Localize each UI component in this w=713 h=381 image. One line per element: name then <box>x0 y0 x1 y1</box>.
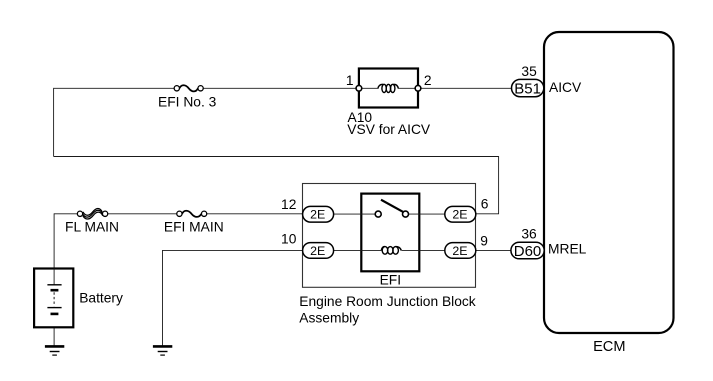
wire: EFI MAIN to connector 2E pin 12 <box>207 213 304 215</box>
relay switch (EFI relay contacts) <box>375 200 408 217</box>
svg-text:ECM: ECM <box>593 339 625 355</box>
svg-text:1: 1 <box>346 73 354 88</box>
svg-text:35: 35 <box>521 64 537 79</box>
relay coil (EFI relay coil) <box>381 247 401 255</box>
ground (battery negative) <box>45 346 64 355</box>
svg-text:EFI: EFI <box>380 273 401 288</box>
connector B51 (ECM pin 35, AICV) <box>512 79 544 97</box>
svg-text:12: 12 <box>281 197 296 212</box>
svg-text:D60: D60 <box>514 243 542 260</box>
connector 2E pin 6 (top right) <box>445 206 476 222</box>
wire: relay switch left stub <box>333 213 375 215</box>
svg-text:2E: 2E <box>310 244 325 258</box>
svg-text:EFI No. 3: EFI No. 3 <box>158 94 217 109</box>
wire: connector 2E pin 9 to connector D60 <box>474 249 513 251</box>
svg-text:Battery: Battery <box>79 290 123 305</box>
wire: relay coil right stub to 2E pin 9 <box>402 249 445 251</box>
svg-text:2E: 2E <box>452 208 467 222</box>
ground (EFI relay coil return) <box>153 346 172 355</box>
svg-text:B51: B51 <box>514 80 541 97</box>
svg-text:2E: 2E <box>452 244 467 258</box>
wire: middle horizontal return <box>54 156 499 158</box>
junction block label <box>299 294 475 326</box>
svg-text:9: 9 <box>480 233 488 248</box>
fusible link FL MAIN <box>77 208 107 219</box>
svg-text:Engine Room Junction Block: Engine Room Junction Block <box>299 294 475 309</box>
connector 2E pin 9 (bottom right) <box>445 243 476 259</box>
ECM <box>544 32 674 333</box>
wire: ground branch to connector 2E pin 10 <box>163 249 305 251</box>
battery <box>34 269 73 328</box>
wire: battery positive to fusible link FL MAIN <box>54 213 78 215</box>
svg-text:EFI MAIN: EFI MAIN <box>164 219 224 234</box>
wire: VSV pin 2 to connector B51 <box>421 87 514 89</box>
VSV pin 1 <box>346 73 362 91</box>
svg-text:MREL: MREL <box>548 242 587 257</box>
wire: relay switch right stub to 2E pin 6 <box>408 213 445 215</box>
connector 2E pin 10 (bottom left) <box>303 243 334 259</box>
relay U1 EFI (case) <box>361 194 419 272</box>
wire: left vertical node A <box>53 88 55 157</box>
wire: connector 2E pin 6 to vertical <box>474 213 499 215</box>
wire: ground drop from pin 10 branch <box>162 250 164 346</box>
svg-text:Assembly: Assembly <box>299 310 359 325</box>
connector 2E pin 12 (top left) <box>303 206 334 222</box>
junction block: Engine Room Junction Block Assembly <box>303 184 476 288</box>
svg-text:36: 36 <box>521 227 537 242</box>
wire: battery negative to ground <box>53 314 55 346</box>
solenoid valve A10 VSV for AICV <box>359 69 418 108</box>
svg-text:AICV: AICV <box>549 80 582 95</box>
svg-text:2E: 2E <box>310 208 325 222</box>
wire: relay coil left stub <box>333 249 381 251</box>
fuse EFI MAIN <box>177 211 207 217</box>
fuse F1 EFI No. 3 <box>174 85 203 91</box>
svg-text:10: 10 <box>281 232 297 247</box>
svg-text:6: 6 <box>481 197 489 212</box>
wire: right vertical to relay pin 6 <box>498 156 500 214</box>
VSV pin 2 <box>415 73 431 91</box>
VSV labels A10 / VSV for AICV <box>347 110 431 137</box>
wire: fuse EFI No. 3 to VSV pin 1 <box>203 87 357 89</box>
wire: top feed from node A to fuse EFI No. 3 <box>54 87 175 89</box>
wire: FL MAIN to fuse EFI MAIN <box>108 213 177 215</box>
svg-text:FL MAIN: FL MAIN <box>65 219 119 234</box>
svg-text:2: 2 <box>424 73 432 88</box>
connector D60 (ECM pin 36, MREL) <box>511 242 544 260</box>
svg-text:VSV for AICV: VSV for AICV <box>347 122 431 137</box>
wire: battery vertical riser <box>53 213 55 284</box>
